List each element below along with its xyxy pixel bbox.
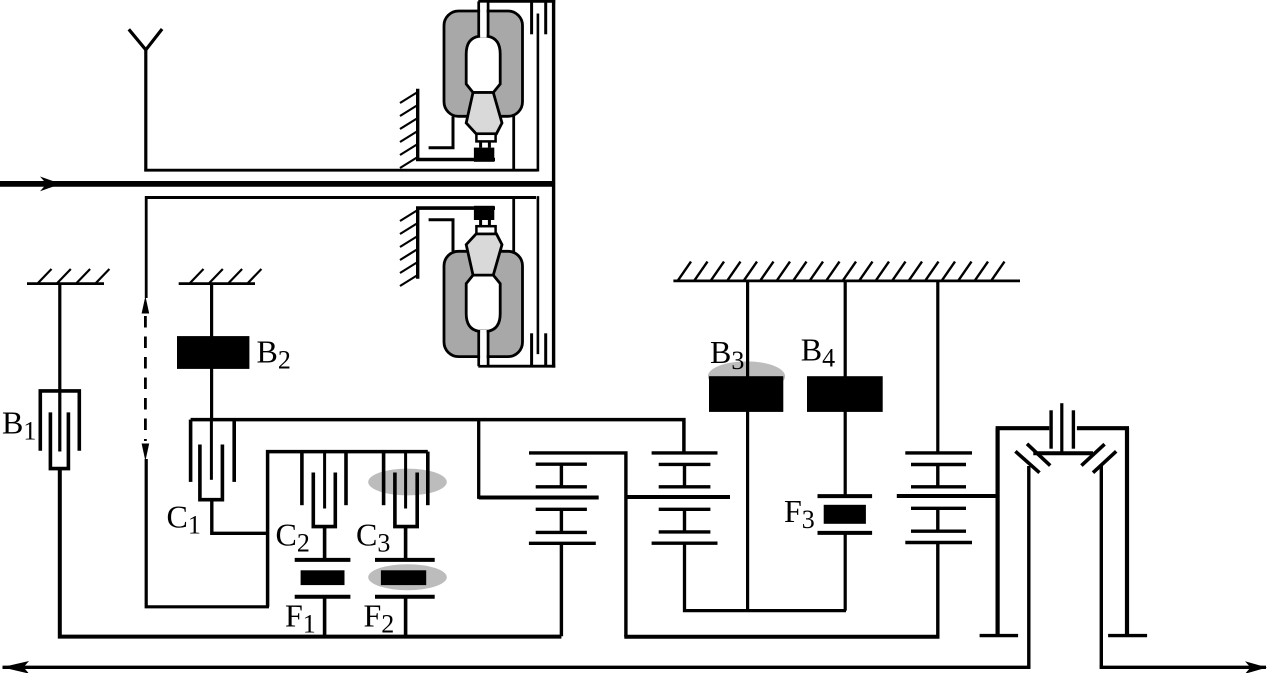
pump output leg <box>512 114 515 172</box>
mirrored lower converter half <box>416 184 555 368</box>
hub slot <box>480 3 487 38</box>
input arrow <box>40 177 61 192</box>
planetary gearset P3 <box>897 453 998 638</box>
bottom rail B <box>624 635 939 639</box>
brake B1 plates <box>40 391 79 469</box>
turbine shaft <box>537 14 540 172</box>
brake B3 shaft <box>746 282 749 611</box>
bottom rail A <box>60 467 562 637</box>
brake B3 block <box>709 376 783 412</box>
freewheel F2 <box>375 560 435 637</box>
axle inner legs <box>1027 466 1030 667</box>
planetary gearset P1 ring wire <box>529 453 626 637</box>
brake B4 shaft <box>844 282 847 496</box>
ground bar right <box>673 279 1020 282</box>
final drive housing <box>980 428 1148 635</box>
input shaft <box>0 181 554 187</box>
bevel gears <box>1015 444 1116 473</box>
brake B2 ground <box>179 269 262 284</box>
converter housing right wall <box>552 0 555 184</box>
converter housing top bar <box>478 0 555 3</box>
clutch C1 <box>191 420 235 500</box>
arrow up on dashed link <box>142 296 150 314</box>
ground wall <box>416 89 419 159</box>
wire left vertical x=146 upper solid <box>145 196 148 298</box>
stator wall hatching upper <box>400 92 418 168</box>
output axle left <box>3 666 1031 669</box>
stator cone <box>466 93 502 134</box>
wire input drum drop x=478.7 <box>477 420 480 499</box>
brake B1 ground <box>27 269 109 284</box>
planetary gearset P2 <box>626 453 730 543</box>
spline stubs <box>530 1 533 34</box>
brake B2 shaft <box>210 284 213 421</box>
ground bar right hatching <box>678 262 1005 281</box>
clutch C2 <box>302 452 346 527</box>
wire upper converter feed y=170 <box>144 169 537 172</box>
brake B4 block <box>807 376 883 412</box>
freewheel F1 <box>295 560 351 637</box>
wire C3 to F2 <box>404 527 408 560</box>
freewheel F3 <box>818 496 873 610</box>
drum box <box>268 452 428 607</box>
wire C1 hub to box <box>212 500 269 534</box>
wire C2 to F1 <box>323 527 327 560</box>
planetary gearset P1 <box>479 464 599 636</box>
brake B2 block <box>177 336 249 369</box>
torque converter assembly <box>416 0 555 368</box>
wire P2 carrier to F3 <box>685 543 847 610</box>
highlight ellipse on F2 <box>368 564 447 590</box>
wire left vertical x=146 lower solid to box <box>146 459 269 607</box>
turbine bulb <box>466 36 500 92</box>
wire lower converter feed y=197.5 <box>146 196 536 199</box>
output axle right <box>1100 666 1266 669</box>
one-way clutch block <box>474 148 494 162</box>
stator wall hatching lower <box>400 210 418 286</box>
highlight ellipse on C3 <box>368 469 447 496</box>
stator support hook <box>429 117 453 148</box>
pump shell <box>444 11 523 116</box>
wall bracket <box>416 158 495 162</box>
planetary gearset P3 shaft <box>936 282 939 453</box>
stator hub <box>476 134 495 142</box>
dashed link <box>144 316 147 441</box>
engine input Y fork <box>129 29 162 172</box>
bevel pinion <box>1033 403 1093 453</box>
highlight dome on B3 <box>708 361 785 391</box>
wire C1 top rail to P2 <box>191 420 684 454</box>
brake B1 shaft <box>58 284 61 452</box>
clutch C3 <box>384 452 428 527</box>
arrow down on dashed link <box>142 444 150 462</box>
